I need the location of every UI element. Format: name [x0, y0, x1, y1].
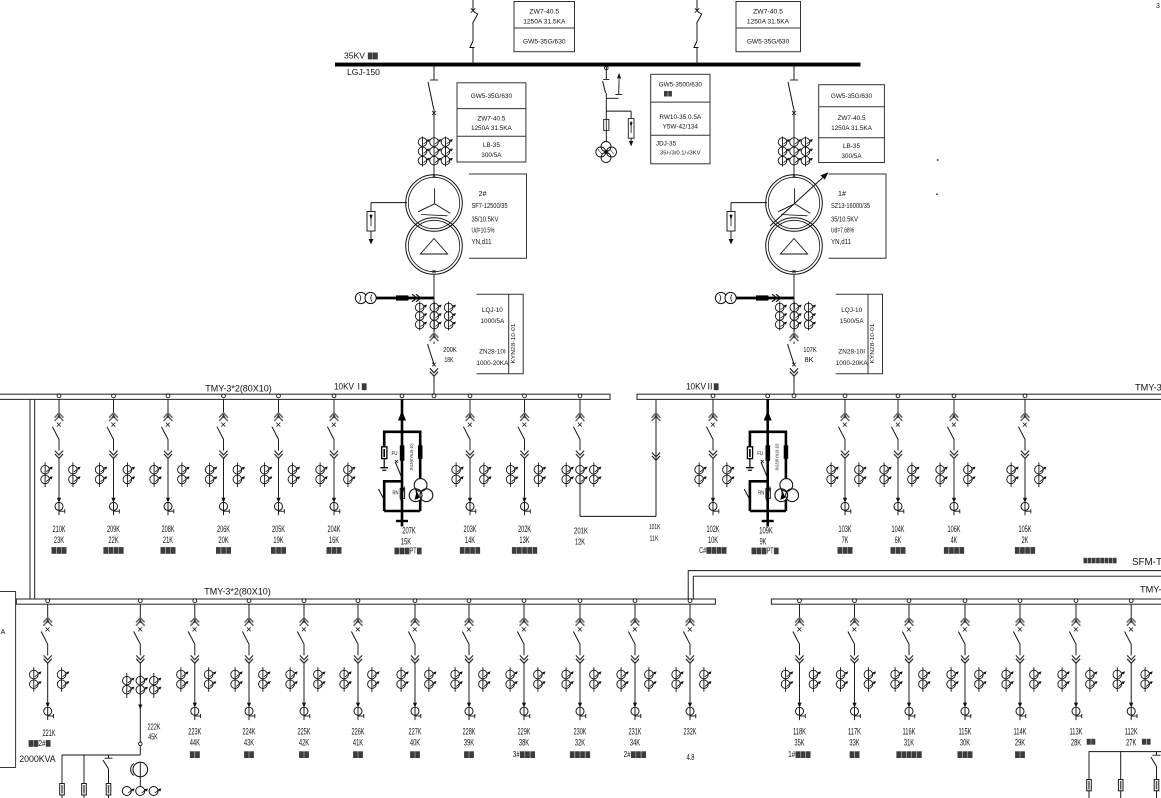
feeder 204K (breaker, CTs, cable head)	[332, 394, 336, 398]
svg-text:208K: 208K	[162, 524, 175, 534]
svg-text:1000-20KA: 1000-20KA	[836, 360, 869, 367]
svg-text:42K: 42K	[299, 738, 309, 748]
svg-text:209K: 209K	[107, 524, 120, 534]
svg-text:229K: 229K	[518, 727, 531, 737]
wall bushing CTs on LV side	[715, 292, 726, 303]
LV branch fuse at x=1120.7	[1120, 752, 1122, 780]
svg-text:1#: 1#	[838, 189, 847, 198]
LV distribution bar of 2000KVA	[62, 754, 140, 756]
35KV voltage transformer JDJ-35 (4 windings)	[601, 142, 611, 152]
svg-text:FU: FU	[392, 451, 398, 457]
feeder 112K (breaker, CTs, cable head)	[1129, 599, 1133, 603]
svg-text:114K: 114K	[1014, 727, 1027, 737]
bus tie cable from bus I to lower bus	[29, 399, 31, 599]
note text	[1084, 558, 1088, 564]
label box incoming 1 (ZW7-40.5)	[514, 2, 575, 52]
svg-text:115K: 115K	[959, 727, 972, 737]
feeder 113K (breaker, CTs, cable head)	[1074, 599, 1078, 603]
svg-text:206K: 206K	[217, 524, 230, 534]
transformer 2# tap circle on bus I	[432, 394, 436, 398]
10KV bus II	[637, 394, 1161, 399]
svg-text:2#: 2#	[479, 189, 488, 198]
switchgear nameplate box	[476, 294, 523, 374]
svg-text:34K: 34K	[630, 738, 640, 748]
svg-text:1250A 31.5KA: 1250A 31.5KA	[523, 19, 566, 26]
LV branch fuse at x=1156.5	[1156, 752, 1158, 755]
svg-text:10K: 10K	[708, 535, 718, 545]
feeder 224K (breaker, CTs, cable head)	[247, 599, 251, 603]
svg-text:112K: 112K	[1125, 727, 1138, 737]
svg-text:23K: 23K	[54, 535, 64, 545]
LV breaker ZN28	[430, 333, 439, 338]
svg-text:21K: 21K	[163, 535, 173, 545]
svg-text:105K: 105K	[1019, 524, 1032, 534]
svg-text:102K: 102K	[707, 524, 720, 534]
svg-text:I: I	[358, 381, 360, 391]
svg-text:113K: 113K	[1070, 727, 1083, 737]
tie link wire to bus II	[580, 515, 656, 517]
svg-text:Ud=7.68%: Ud=7.68%	[831, 226, 854, 235]
feeder 229K (breaker, CTs, cable head)	[522, 599, 526, 603]
svg-text:1000/5A: 1000/5A	[480, 318, 505, 325]
svg-text:LGJ-150: LGJ-150	[347, 67, 380, 77]
svg-text:117K: 117K	[848, 727, 861, 737]
svg-text:43K: 43K	[244, 738, 254, 748]
svg-text:LQJ-10: LQJ-10	[482, 307, 503, 314]
svg-text:38K: 38K	[519, 738, 529, 748]
feeder 228K (breaker, CTs, cable head)	[467, 599, 471, 603]
svg-text:3#: 3#	[513, 749, 520, 759]
svg-text:1250A 31.5KA: 1250A 31.5KA	[471, 125, 513, 132]
lower 10KV bus (left section)	[16, 599, 715, 604]
svg-text:45K: 45K	[148, 732, 158, 742]
svg-text:44K: 44K	[190, 738, 200, 748]
feeder 202K (breaker, CTs, cable head)	[523, 394, 527, 398]
feeder 222K to 2000KVA transformer	[138, 599, 142, 603]
svg-text:14K: 14K	[465, 535, 475, 545]
svg-text:1250A 31.5KA: 1250A 31.5KA	[747, 19, 790, 26]
svg-text:PT: PT	[410, 546, 417, 556]
svg-text:227K: 227K	[409, 727, 422, 737]
feeder 225K (breaker, CTs, cable head)	[302, 599, 306, 603]
PT cabinet fuse with earth	[747, 447, 752, 459]
LV CT cluster LQJ-10 (3x3)	[793, 294, 795, 332]
svg-text:TMY-3*2(80X10): TMY-3*2(80X10)	[204, 587, 271, 597]
svg-text:SFM-TJ: SFM-TJ	[1132, 557, 1161, 568]
35KV PT branch earthing switch	[606, 97, 618, 99]
35KV bus	[335, 63, 861, 67]
svg-text:22K: 22K	[108, 535, 118, 545]
svg-text:202K: 202K	[518, 524, 531, 534]
feeder 105K (breaker, CTs, cable head)	[1023, 394, 1027, 398]
svg-text:19K: 19K	[273, 535, 283, 545]
svg-text:210K: 210K	[53, 524, 66, 534]
feeder 209K (breaker, CTs, cable head)	[112, 394, 116, 398]
svg-text:4.8: 4.8	[687, 752, 695, 762]
svg-text:GW5-35G/630: GW5-35G/630	[747, 39, 790, 46]
svg-text:12K: 12K	[575, 536, 585, 546]
svg-text:204K: 204K	[328, 524, 341, 534]
feeder 117K (breaker, CTs, cable head)	[853, 599, 857, 603]
feeder 223K (breaker, CTs, cable head)	[193, 599, 197, 603]
svg-text:PT: PT	[767, 546, 774, 556]
svg-text:205K: 205K	[272, 524, 285, 534]
35KV PT fuse RW10-35	[605, 111, 607, 119]
svg-text:7K: 7K	[842, 535, 849, 545]
2000KVA transformer primary	[133, 762, 148, 777]
svg-text:201K: 201K	[574, 526, 588, 536]
stray dot	[937, 159, 939, 161]
PT cabinet right branch fuse bar	[784, 445, 789, 458]
svg-text:SF7-12500/35: SF7-12500/35	[472, 201, 508, 210]
svg-text:10KV: 10KV	[334, 381, 354, 391]
transformer nameplate box	[829, 174, 887, 258]
feeder 205K (breaker, CTs, cable head)	[277, 394, 281, 398]
svg-text:107K: 107K	[803, 345, 817, 354]
switchgear nameplate box	[836, 294, 883, 374]
svg-text:ZN28-10I: ZN28-10I	[479, 349, 506, 356]
PT cabinet right branch fuse bar	[418, 445, 423, 458]
svg-text:TMY-3*2(80X10): TMY-3*2(80X10)	[205, 383, 272, 393]
LV breaker ZN28	[790, 333, 799, 338]
svg-text:8K: 8K	[805, 355, 814, 364]
surge arrester at transformer	[371, 202, 407, 204]
cut-off cabinet box at left edge	[0, 592, 16, 768]
svg-text:ZW7-40.5: ZW7-40.5	[529, 9, 559, 16]
svg-text:300/5A: 300/5A	[841, 153, 862, 160]
svg-text:28K: 28K	[1071, 738, 1081, 748]
svg-text:SZ13-16000/35: SZ13-16000/35	[831, 201, 870, 210]
svg-text:33K: 33K	[849, 738, 859, 748]
feeder 104K (breaker, CTs, cable head)	[896, 394, 900, 398]
feeder 226K (breaker, CTs, cable head)	[356, 599, 360, 603]
svg-text:YN,d11: YN,d11	[831, 237, 851, 246]
feeder 102K (breaker, CTs, cable head)	[711, 394, 715, 398]
feeder 208K (breaker, CTs, cable head)	[166, 394, 170, 398]
svg-text:2K: 2K	[1022, 535, 1029, 545]
svg-text:118K: 118K	[793, 727, 806, 737]
35KV incoming line 2 breaker	[696, 0, 698, 10]
transformer 1# tap circle on bus II	[792, 394, 796, 398]
35KV CT nameplate box	[819, 85, 885, 163]
svg-text:35/10.5KV: 35/10.5KV	[472, 215, 500, 224]
svg-text:LB-35: LB-35	[843, 143, 860, 150]
feeder 103K (breaker, CTs, cable head)	[843, 394, 847, 398]
svg-text:GW5-35G/630: GW5-35G/630	[831, 93, 873, 100]
PT cabinet voltage transformer (3 windings)	[780, 479, 793, 492]
svg-text:18K: 18K	[445, 355, 454, 364]
svg-text:FU: FU	[757, 451, 763, 457]
power transformer (two windings)	[793, 167, 795, 176]
svg-text:RN: RN	[393, 491, 399, 497]
feeder 221K (breaker, CTs, cable head)	[46, 599, 50, 603]
PT cabinet feeder 109K thick riser	[766, 394, 770, 398]
svg-text:300/5A: 300/5A	[481, 152, 502, 159]
bus tie feeder 201K	[578, 394, 582, 398]
on-load tap changer arrow	[770, 176, 825, 227]
svg-text:35/√3/0.1/√3KV: 35/√3/0.1/√3KV	[660, 150, 701, 157]
svg-text:221K: 221K	[43, 728, 56, 738]
35KV surge arrester Y5W	[606, 110, 631, 112]
PT cabinet voltage transformer (3 windings)	[414, 479, 427, 492]
PT cabinet frame	[750, 430, 786, 433]
svg-text:ZN28-10I: ZN28-10I	[838, 349, 865, 356]
svg-text:KYN28-10-01: KYN28-10-01	[511, 324, 517, 364]
svg-text:2#: 2#	[39, 738, 46, 748]
svg-text:20K: 20K	[218, 535, 228, 545]
svg-text:101K: 101K	[649, 522, 661, 531]
svg-text:222K: 222K	[148, 721, 161, 731]
generator tie lines SFM	[688, 570, 1161, 572]
svg-text:32K: 32K	[575, 738, 585, 748]
label box incoming 2 (ZW7-40.5)	[736, 2, 801, 52]
svg-text:10KV: 10KV	[686, 381, 706, 391]
svg-text:ZW7-40.5: ZW7-40.5	[837, 115, 866, 122]
svg-text:9K: 9K	[760, 536, 767, 546]
feeder 227K (breaker, CTs, cable head)	[413, 599, 417, 603]
feeder 118K (breaker, CTs, cable head)	[798, 599, 802, 603]
svg-text:225K: 225K	[298, 727, 311, 737]
svg-text:LQJ-10: LQJ-10	[841, 307, 862, 314]
svg-text:GW5-35G/630: GW5-35G/630	[471, 93, 513, 100]
svg-text:228K: 228K	[463, 727, 476, 737]
35KV CT nameplate box	[457, 83, 526, 162]
feeder 116K (breaker, CTs, cable head)	[907, 599, 911, 603]
svg-text:3: 3	[1156, 3, 1160, 10]
PT cabinet fuse with earth	[382, 447, 387, 459]
feeder 114K (breaker, CTs, cable head)	[1018, 599, 1022, 603]
svg-text:30K: 30K	[960, 738, 970, 748]
tie riser isolating contacts	[652, 413, 661, 418]
feeder 210K (breaker, CTs, cable head)	[57, 394, 61, 398]
svg-text:35/10.5KV: 35/10.5KV	[831, 215, 859, 224]
svg-text:RW10-35 0.5A: RW10-35 0.5A	[659, 114, 702, 121]
svg-text:35K: 35K	[794, 738, 804, 748]
feeder 203K (breaker, CTs, cable head)	[468, 394, 472, 398]
svg-text:GW5-35G/630: GW5-35G/630	[523, 39, 566, 46]
svg-text:41K: 41K	[353, 738, 363, 748]
svg-text:TMY-3: TMY-3	[1135, 382, 1161, 392]
svg-text:103K: 103K	[839, 524, 852, 534]
svg-text:KYN28-10-01: KYN28-10-01	[870, 324, 876, 364]
svg-text:29K: 29K	[1015, 738, 1025, 748]
svg-text:106K: 106K	[948, 524, 961, 534]
svg-text:116K: 116K	[903, 727, 916, 737]
svg-text:JDJ-35: JDJ-35	[656, 141, 677, 148]
LV CT cluster LQJ-10 (3x3)	[433, 294, 435, 332]
10KV bus I	[0, 394, 610, 399]
svg-text:GW5-3500/630: GW5-3500/630	[659, 82, 703, 89]
svg-text:231K: 231K	[629, 727, 642, 737]
svg-text:ZW7-40.5: ZW7-40.5	[753, 9, 783, 16]
LV thick link	[376, 297, 434, 300]
LV branch fuse at x=84	[83, 755, 85, 784]
svg-text:JN15(KYN28-10): JN15(KYN28-10)	[775, 443, 780, 470]
power transformer (two windings)	[433, 167, 435, 176]
svg-text:RN: RN	[758, 491, 764, 497]
svg-text:Y5W-42/134: Y5W-42/134	[663, 124, 699, 131]
svg-text:TMY-3: TMY-3	[1140, 584, 1161, 594]
svg-text:2000KVA: 2000KVA	[19, 754, 56, 764]
feeder 206K (breaker, CTs, cable head)	[222, 394, 226, 398]
svg-text:35KV: 35KV	[344, 51, 365, 61]
label box 35KV PT branch	[651, 74, 710, 164]
svg-text:13K: 13K	[519, 535, 529, 545]
transformer nameplate box	[469, 174, 527, 258]
svg-text:C#: C#	[699, 545, 706, 555]
svg-text:232K: 232K	[684, 727, 697, 737]
35KV CT cluster LB-35 (3x3)	[422, 137, 424, 167]
svg-text:A: A	[1, 629, 6, 636]
svg-text:1500/5A: 1500/5A	[840, 318, 865, 325]
svg-text:JN15(KYN28-10): JN15(KYN28-10)	[409, 443, 414, 470]
LV branch fuse at x=62	[61, 755, 63, 784]
35KV disconnect below bus	[793, 67, 795, 80]
PT cabinet feeder 207K thick riser	[400, 394, 404, 398]
feeder 231K (breaker, CTs, cable head)	[633, 599, 637, 603]
LV branch fuse at x=1089	[1088, 752, 1090, 780]
svg-text:207K: 207K	[402, 526, 416, 536]
svg-text:104K: 104K	[892, 524, 905, 534]
svg-text:6K: 6K	[895, 535, 902, 545]
svg-text:1#: 1#	[788, 749, 795, 759]
svg-text:40K: 40K	[410, 738, 420, 748]
svg-text:203K: 203K	[464, 524, 477, 534]
svg-text:224K: 224K	[243, 727, 256, 737]
svg-text:230K: 230K	[574, 727, 587, 737]
wall bushing CTs on LV side	[355, 292, 366, 303]
feeder 115K (breaker, CTs, cable head)	[963, 599, 967, 603]
35KV disconnect below bus	[433, 67, 435, 80]
LV branch fuse at x=108.5	[108, 755, 110, 759]
svg-text:39K: 39K	[464, 738, 474, 748]
svg-text:1250A 31.5KA: 1250A 31.5KA	[831, 125, 873, 132]
svg-text:Ud=10.5%: Ud=10.5%	[472, 226, 495, 235]
svg-text:27K: 27K	[1126, 738, 1136, 748]
svg-text:LB-35: LB-35	[483, 142, 500, 149]
35KV incoming line 1 breaker	[472, 0, 474, 10]
svg-text:223K: 223K	[188, 727, 201, 737]
svg-text:11K: 11K	[650, 533, 659, 542]
svg-text:1000-20KA: 1000-20KA	[476, 360, 509, 367]
svg-text:YN,d11: YN,d11	[472, 237, 492, 246]
35KV CT cluster LB-35 (3x3)	[782, 137, 784, 167]
svg-text:200K: 200K	[443, 345, 457, 354]
PT cabinet frame	[384, 430, 420, 433]
svg-text:2#: 2#	[624, 749, 631, 759]
35KV PT branch disconnect GW5	[605, 66, 609, 70]
svg-text:31K: 31K	[904, 738, 914, 748]
feeder 230K (breaker, CTs, cable head)	[578, 599, 582, 603]
svg-text:II: II	[708, 381, 713, 391]
2000KVA secondary windings	[122, 787, 131, 796]
lower 10KV bus (right section)	[771, 599, 1161, 604]
feeder 106K (breaker, CTs, cable head)	[952, 394, 956, 398]
feeder 232K (breaker, CTs, cable head)	[688, 599, 692, 603]
svg-text:226K: 226K	[352, 727, 365, 737]
LV thick link	[736, 297, 794, 300]
svg-text:109K: 109K	[759, 526, 773, 536]
svg-text:4K: 4K	[951, 535, 958, 545]
surge arrester at transformer	[731, 202, 767, 204]
svg-text:ZW7-40.5: ZW7-40.5	[477, 115, 506, 122]
svg-text:16K: 16K	[329, 535, 339, 545]
bottom-right LV distribution bar	[1089, 751, 1161, 753]
